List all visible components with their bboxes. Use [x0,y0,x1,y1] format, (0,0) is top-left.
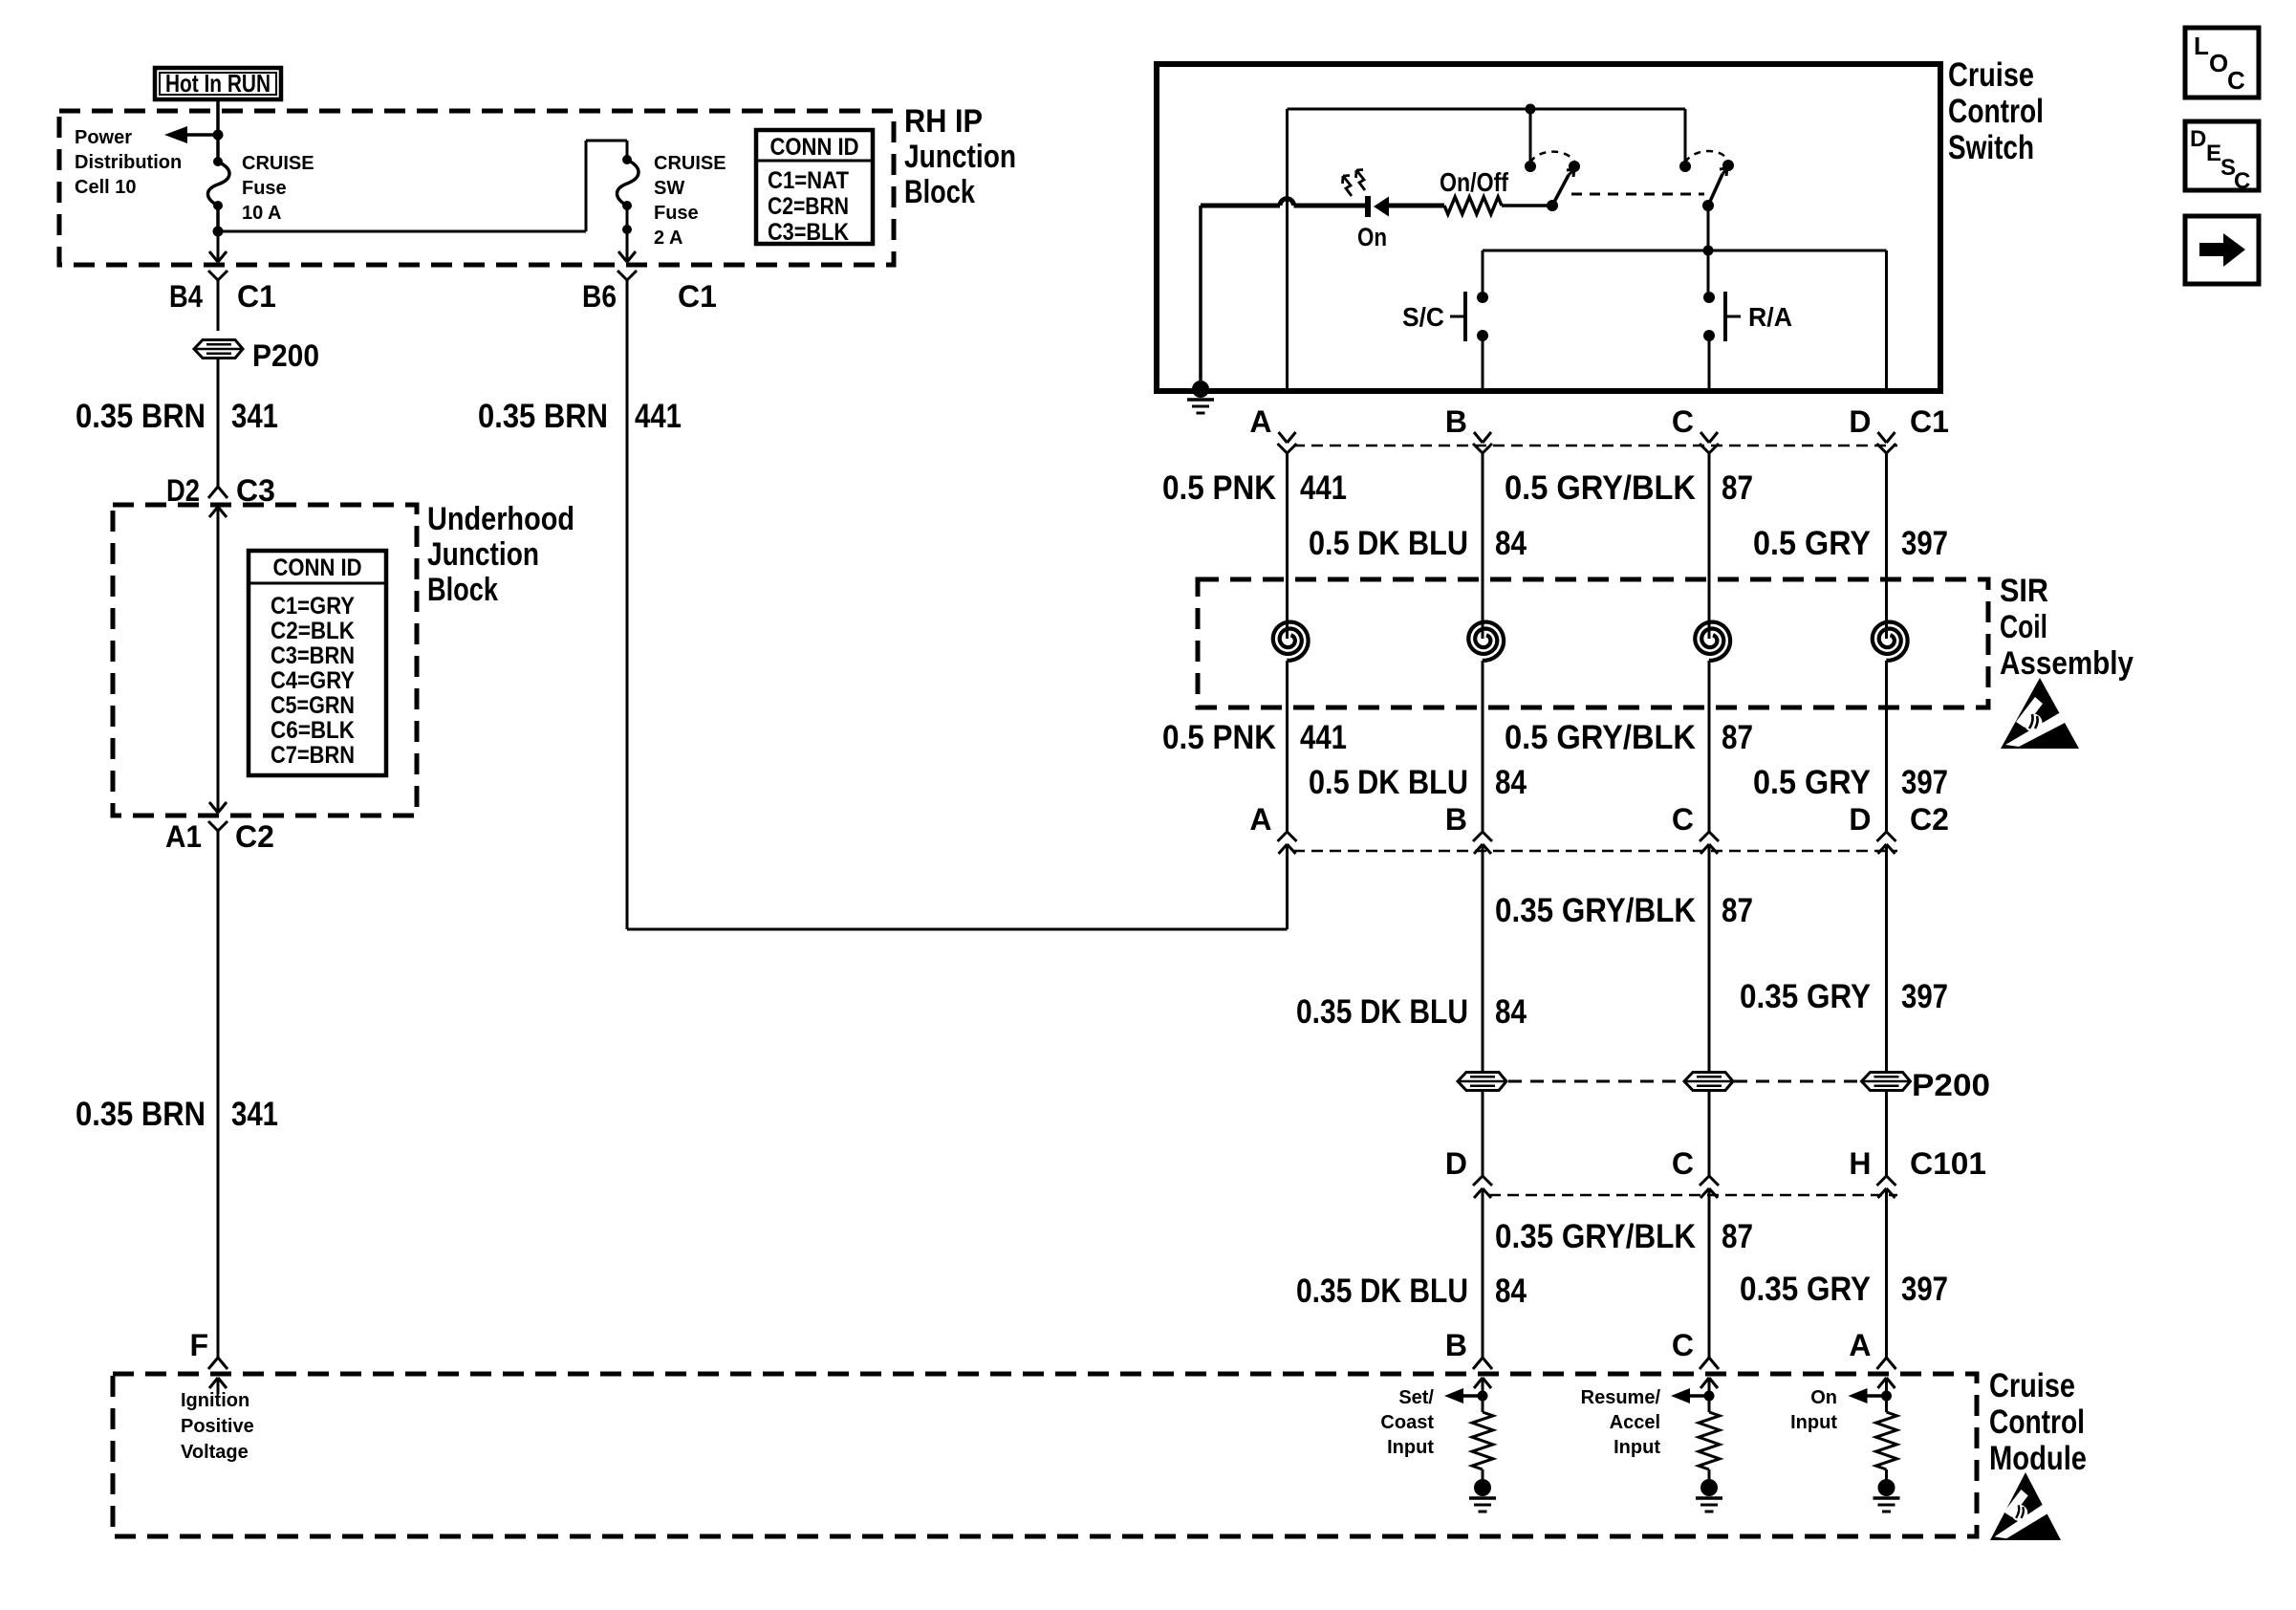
svg-text:A1: A1 [165,819,202,854]
svg-text:397: 397 [1901,764,1948,801]
node fuse1 output junction [213,227,224,237]
svg-text:D: D [2190,126,2206,152]
wire B4 to P200 [217,280,220,331]
svg-text:Voltage: Voltage [181,1442,249,1463]
SIR coil D [1873,622,1908,661]
wire from Hot In RUN into junction block [216,99,220,135]
resistor module input A [1885,1402,1888,1412]
svg-text:A: A [1849,1328,1871,1362]
wire through underhood junction block [217,507,220,813]
svg-text:Positive: Positive [181,1416,254,1437]
icon box arrow [2185,216,2259,284]
svg-text:C: C [1672,802,1694,837]
svg-text:0.5 DK BLU: 0.5 DK BLU [1309,764,1468,801]
svg-text:Input: Input [1614,1437,1660,1458]
wire S/C bottom contact down column B [1482,336,1484,388]
svg-text:0.5 DK BLU: 0.5 DK BLU [1309,525,1468,562]
svg-text:Hot In RUN: Hot In RUN [165,69,271,98]
switch S1 contacts [1525,161,1536,172]
svg-text:C2: C2 [1910,802,1949,837]
svg-text:84: 84 [1495,993,1527,1031]
wire D below C2 [1885,844,1888,1073]
svg-text:C3=BRN: C3=BRN [271,642,355,669]
svg-text:Control: Control [1989,1403,2085,1441]
connector C2 dashed line [1293,850,1897,853]
svg-text:0.5 PNK: 0.5 PNK [1162,469,1276,507]
switch S2 dashed travel arc [1685,151,1728,163]
svg-text:CRUISE: CRUISE [654,153,726,174]
svg-text:10 A: 10 A [242,203,282,224]
svg-text:C1=GRY: C1=GRY [271,593,355,620]
svg-text:P200: P200 [252,338,319,373]
svg-text:0.35 GRY: 0.35 GRY [1740,1271,1871,1308]
svg-text:D: D [1445,1146,1467,1181]
connector D2 C3 [208,487,227,498]
LED cruise indicator [1365,196,1371,217]
svg-text:441: 441 [1300,719,1347,756]
svg-text:B4: B4 [169,279,203,314]
svg-text:0.35 BRN: 0.35 BRN [478,398,608,435]
SIR Coil Assembly dashed box [1198,579,1988,707]
svg-text:On: On [1357,223,1387,251]
connector C101 pin H [1877,1176,1896,1186]
connector A1 C2 [209,802,227,813]
fuse F2 CRUISE SW Fuse 2 A [626,141,629,160]
wire B6 down label 0.35 BRN 441 [626,280,629,929]
wire R/A bottom contact down column C [1708,336,1711,388]
CONN ID table (Underhood) [249,551,386,775]
switch S1 On/Off pivot [1547,200,1558,211]
connector C101 dashed line [1489,1194,1897,1197]
svg-text:C6=BLK: C6=BLK [271,717,355,744]
svg-text:Underhood: Underhood [427,501,574,537]
svg-text:B: B [1445,1328,1467,1362]
svg-text:C2=BRN: C2=BRN [768,193,849,220]
node power distribution tap [213,130,224,141]
SIR coil A [1273,622,1309,661]
svg-text:D: D [1849,404,1871,439]
connector C1 dashed line [1293,445,1897,447]
module input node C [1708,1378,1711,1402]
svg-text:D: D [1849,802,1871,837]
svg-text:CRUISE: CRUISE [242,153,314,174]
RH IP Junction Block dashed box [59,111,894,265]
wire B grommet to C101 [1482,1090,1484,1176]
icon box LOC [2185,28,2259,98]
svg-text:C1: C1 [1910,404,1949,439]
junction block power feed label box 'Hot In RUN' [155,68,281,99]
node top bus to S1 left contact [1526,104,1536,115]
wire ground up to lamp line [1199,206,1202,381]
svg-text:87: 87 [1722,892,1753,929]
wire top bus to switch contacts [1288,108,1686,111]
Underhood Junction Block dashed box [113,505,417,816]
mechanical link dashed S1-S2 [1571,193,1704,196]
connector C1 pin C [1700,432,1718,443]
connector B4 C1 [209,251,227,262]
wire fuse1 down to B4 [217,231,220,262]
svg-text:Accel: Accel [1610,1412,1660,1433]
svg-text:0.5 PNK: 0.5 PNK [1162,719,1276,756]
wire top bus down to S2 left contact [1684,109,1687,162]
svg-text:441: 441 [1300,469,1347,507]
wire C C101 to module [1708,1188,1711,1358]
module input node A [1885,1378,1888,1402]
CONN ID table (RH IP) [756,130,873,244]
wire C C1 to SIR coil [1708,453,1711,639]
svg-text:Distribution: Distribution [75,152,182,173]
connector C1 pin B [1474,432,1491,443]
connector C2 pin A [1278,832,1297,841]
svg-text:Fuse: Fuse [654,203,699,224]
resistor module input B [1482,1402,1484,1412]
svg-text:Resume/: Resume/ [1581,1387,1661,1408]
svg-text:L: L [2194,32,2209,60]
svg-text:P200: P200 [1912,1068,1990,1102]
node S2-R/A junction on bus [1703,246,1714,256]
svg-text:84: 84 [1495,764,1527,801]
svg-text:C4=GRY: C4=GRY [271,667,355,694]
svg-text:B: B [1445,404,1467,439]
switch S1 dashed travel arc [1530,152,1574,163]
svg-text:Module: Module [1989,1440,2087,1477]
wire B6 run to column A of switch connector C2 [627,928,1288,931]
svg-text:0.35 BRN: 0.35 BRN [76,398,206,435]
svg-text:C1: C1 [237,279,276,314]
wire C below C2 [1708,844,1711,1073]
connector C2 pin D [1877,832,1896,841]
wire A C1 to SIR coil [1286,453,1289,639]
svg-text:SIR: SIR [2000,573,2048,609]
wire D C101 to module [1885,1188,1888,1358]
svg-text:Set/: Set/ [1398,1387,1434,1408]
svg-text:F: F [189,1328,208,1362]
svg-text:0.35 DK BLU: 0.35 DK BLU [1296,1273,1468,1310]
wire D grommet to C101 [1885,1090,1888,1176]
Cruise Control Module dashed box [113,1374,1977,1536]
svg-text:0.5 GRY/BLK: 0.5 GRY/BLK [1505,719,1696,756]
module input node B [1482,1378,1484,1402]
wire column A inside switch [1286,109,1289,388]
dashed grommet link and label P200 [1508,1080,1683,1083]
wire B C101 to module [1482,1188,1484,1358]
svg-text:341: 341 [231,1096,278,1133]
svg-text:397: 397 [1901,978,1948,1015]
module warning triangle icon [1990,1472,2061,1540]
svg-text:Ignition: Ignition [181,1390,249,1411]
svg-text:B6: B6 [582,279,617,314]
wire P200 to D2 label 0.35 BRN 341 [217,359,220,487]
svg-text:Switch: Switch [1948,129,2034,166]
SIR coil B [1468,622,1504,661]
switch S2 lever with arrow [1708,174,1722,206]
switch S2 S/C pushbutton [1477,292,1488,303]
svg-text:0.5 GRY/BLK: 0.5 GRY/BLK [1505,469,1696,507]
svg-text:On: On [1810,1387,1837,1408]
connector B (module) [1473,1358,1492,1369]
svg-text:Fuse: Fuse [242,178,287,199]
svg-text:87: 87 [1722,1218,1753,1255]
svg-text:Cruise: Cruise [1948,56,2034,94]
switch S3 R/A pushbutton [1703,292,1715,303]
grommet P200 (left) [194,340,243,359]
svg-text:0.35 DK BLU: 0.35 DK BLU [1296,993,1468,1031]
svg-text:Block: Block [904,174,975,210]
SIR warning triangle icon [2001,678,2079,749]
svg-text:Cruise: Cruise [1989,1367,2075,1404]
connector C101 pin D [1473,1176,1492,1186]
svg-text:C: C [1672,404,1694,439]
svg-text:87: 87 [1722,719,1753,756]
connector A (module) [1877,1358,1896,1369]
icon box DESC [2185,121,2259,190]
svg-text:Coast: Coast [1380,1412,1434,1433]
svg-text:Input: Input [1387,1437,1434,1458]
switch S1 lever with arrow [1552,175,1569,206]
svg-text:397: 397 [1901,1271,1948,1308]
svg-text:397: 397 [1901,525,1948,562]
svg-text:441: 441 [635,398,682,435]
svg-text:CONN ID: CONN ID [770,134,859,161]
svg-text:C1=NAT: C1=NAT [768,167,849,194]
svg-text:CONN ID: CONN ID [273,555,362,581]
svg-text:Junction: Junction [904,139,1016,175]
switch S2 contacts [1679,161,1691,172]
svg-text:C: C [2234,168,2250,194]
wire A1 to module F label 0.35 BRN 341 [217,831,220,1358]
svg-text:C3=BLK: C3=BLK [768,219,849,246]
wire S/C top contact up to bus [1482,250,1484,297]
wire B C1 to SIR coil [1482,453,1484,639]
wire C grommet to C101 [1708,1090,1711,1176]
svg-text:On/Off: On/Off [1440,167,1509,197]
connector C2 pin B [1473,832,1492,841]
svg-text:87: 87 [1722,469,1753,507]
module input arrow A [1868,1394,1887,1398]
ground module input A [1878,1479,1895,1496]
wire fuse1 to fuse2 (junction block internal) [218,230,586,233]
svg-text:0.35 GRY/BLK: 0.35 GRY/BLK [1495,892,1696,929]
svg-text:2 A: 2 A [654,228,682,249]
svg-text:Block: Block [427,572,498,608]
svg-text:Input: Input [1790,1412,1837,1433]
svg-text:A: A [1249,404,1271,439]
svg-text:E: E [2206,141,2221,166]
resistor module input C [1708,1402,1711,1412]
module input arrow B [1463,1394,1483,1398]
svg-text:SW: SW [654,178,684,199]
svg-text:84: 84 [1495,525,1527,562]
SIR coil C [1695,622,1730,661]
svg-text:H: H [1849,1146,1871,1181]
connector B6 C1 [618,251,636,262]
wire B below C2 [1482,844,1484,1073]
svg-text:R/A: R/A [1748,302,1792,332]
module input arrow C [1690,1394,1709,1398]
svg-text:C: C [1672,1146,1694,1181]
svg-text:0.35 GRY/BLK: 0.35 GRY/BLK [1495,1218,1696,1255]
grommet P200 column B [1458,1073,1506,1091]
svg-text:0.5 GRY: 0.5 GRY [1753,764,1871,801]
svg-text:0.35 BRN: 0.35 BRN [76,1096,206,1133]
svg-text:C5=GRN: C5=GRN [271,692,355,719]
svg-text:C7=BRN: C7=BRN [271,742,355,769]
connector C1 pin A [1279,432,1296,443]
wire S2 pivot down to bus [1707,206,1710,297]
svg-text:A: A [1249,802,1271,837]
svg-text:C: C [1672,1328,1694,1362]
connector C2 pin C [1700,832,1719,841]
grommet P200 column C [1684,1073,1733,1091]
connector C1 pin D [1878,432,1895,443]
svg-text:C101: C101 [1910,1146,1986,1181]
arrow to Power Distribution Cell 10 [187,133,218,137]
svg-text:341: 341 [231,398,278,435]
connector C (module) [1700,1358,1719,1369]
svg-text:O: O [2209,49,2228,77]
svg-text:C2: C2 [235,819,274,854]
svg-text:0.35 GRY: 0.35 GRY [1740,978,1871,1015]
svg-text:Control: Control [1948,93,2044,130]
connector C101 pin C [1700,1176,1719,1186]
svg-text:0.5 GRY: 0.5 GRY [1753,525,1871,562]
resistor R1 On/Off lamp resistor [1444,197,1502,214]
ground module input B [1474,1479,1491,1496]
connector F (module) [208,1358,227,1369]
switch S2 pivot [1702,200,1714,211]
svg-text:C: C [2227,66,2245,95]
svg-text:C2=BLK: C2=BLK [271,618,355,644]
svg-text:84: 84 [1495,1273,1527,1310]
grommet P200 column D [1862,1073,1911,1091]
svg-text:B: B [1445,802,1467,837]
wire lamp feed with hop over column A [1201,204,1280,208]
svg-text:Assembly: Assembly [2000,645,2134,682]
ground module input C [1700,1479,1718,1496]
svg-text:S/C: S/C [1402,302,1444,332]
wire D C1 to SIR coil [1885,453,1888,639]
LED light arrows [1343,176,1352,196]
fuse F1 CRUISE Fuse 10 A [216,135,220,162]
svg-text:C1: C1 [678,279,717,314]
svg-text:Cell 10: Cell 10 [75,177,136,198]
svg-text:Junction: Junction [427,536,539,573]
svg-text:Power: Power [75,127,132,148]
ground G (inside switch) [1192,381,1209,398]
wire horizontal bus S/C to column D [1483,250,1887,252]
svg-text:Coil: Coil [2000,609,2047,645]
Cruise Control Switch box [1157,64,1940,391]
svg-text:RH IP: RH IP [904,103,983,140]
